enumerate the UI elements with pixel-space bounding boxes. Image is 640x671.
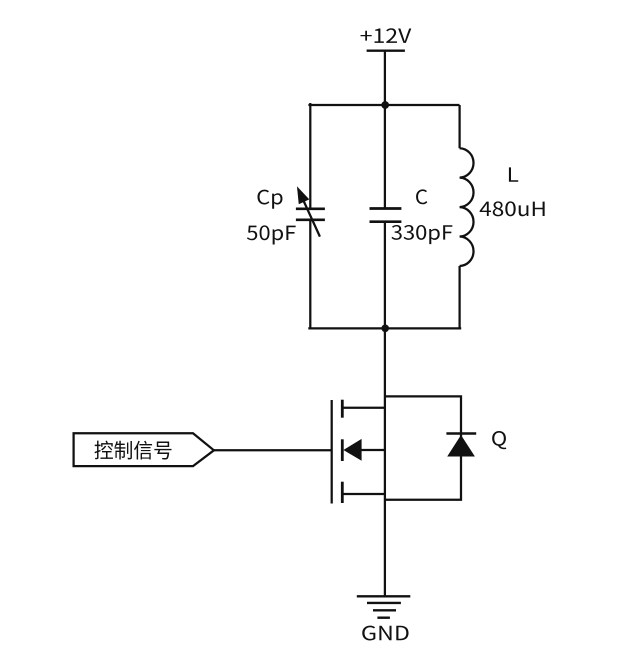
transistor Q source tap wire — [342, 493, 385, 495]
label Q — [492, 431, 506, 449]
value label 480uH — [480, 201, 545, 216]
label Cp — [257, 190, 282, 209]
node bottom junction — [381, 324, 389, 332]
capacitor C lower lead — [384, 222, 386, 329]
capacitor Cp top plate — [296, 207, 325, 210]
label L — [509, 167, 518, 181]
capacitor Cp bottom plate — [296, 218, 325, 221]
capacitor Cp variable arrow head — [298, 188, 309, 204]
body diode branch box — [385, 396, 461, 499]
label 控制信号 (control signal) — [95, 441, 172, 460]
wire control signal to gate — [214, 449, 332, 451]
transistor Q channel bar bottom — [341, 482, 344, 503]
net label GND — [362, 626, 408, 641]
capacitor C upper lead — [384, 105, 386, 209]
inductor L lower lead — [458, 266, 460, 328]
ground bar 3 — [373, 609, 396, 611]
control signal flag outline — [74, 433, 214, 466]
body diode cathode bar — [446, 432, 476, 435]
transistor Q channel bar middle — [341, 439, 344, 461]
wire top rail — [308, 104, 459, 106]
value label 330pF — [391, 225, 452, 244]
wire +12V to top rail — [384, 51, 386, 105]
capacitor Cp lower lead — [309, 220, 311, 329]
+12V terminal bar — [367, 50, 405, 52]
capacitor Cp variable arrow shaft — [304, 201, 320, 236]
transistor Q body tap wire — [361, 449, 385, 451]
ground bar 2 — [367, 602, 401, 604]
inductor L coil — [460, 148, 474, 266]
wire tank to MOSFET drain and source to ground — [384, 328, 386, 596]
transistor Q gate line — [331, 400, 333, 504]
body diode triangle — [447, 435, 475, 457]
ground bar 4 — [377, 617, 390, 619]
ground bar 1 — [357, 595, 411, 597]
wire bottom rail — [308, 327, 461, 329]
value label 50pF — [247, 225, 296, 244]
inductor L upper lead — [458, 105, 460, 148]
capacitor C top plate — [370, 207, 402, 210]
capacitor Cp (variable) upper lead — [309, 103, 311, 209]
capacitor C bottom plate — [370, 220, 402, 223]
transistor Q channel bar top — [341, 400, 344, 418]
node top junction — [381, 101, 389, 109]
net label +12V — [361, 28, 412, 43]
transistor Q drain tap wire — [342, 407, 385, 409]
transistor Q body arrow — [343, 439, 361, 461]
label C — [416, 189, 427, 204]
